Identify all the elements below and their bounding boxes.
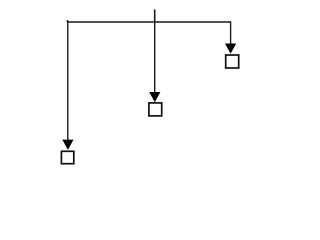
- arrowhead right: [225, 44, 236, 54]
- box middle: [149, 103, 162, 116]
- wire: left corner nub: [67, 20, 69, 23]
- wire: middle vertical drop: [154, 21, 156, 93]
- wire: horizontal bus line: [67, 21, 231, 23]
- box right: [226, 55, 239, 68]
- arrowhead left: [62, 140, 73, 150]
- wire: left vertical drop: [67, 21, 69, 141]
- arrowhead middle: [149, 92, 160, 102]
- wire: top center stub: [154, 10, 156, 23]
- wire: right vertical drop: [230, 21, 232, 45]
- box left: [61, 151, 73, 163]
